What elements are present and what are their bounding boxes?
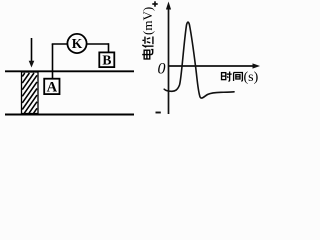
electrode box B [99, 52, 114, 67]
electrode box A [44, 79, 59, 96]
y-axis label 电位(mV), rotated [140, 7, 155, 59]
svg-text:(s): (s) [244, 70, 259, 85]
minus sign (bottom of y-axis) [156, 112, 161, 114]
svg-text:0: 0 [158, 61, 166, 78]
hatched damaged region [22, 72, 39, 114]
wire: corner down to B (vertical) [108, 43, 110, 52]
x-axis (time) [169, 63, 261, 68]
svg-text:A: A [47, 80, 58, 96]
x-axis label 时间(s) [222, 70, 259, 85]
svg-text:(mV): (mV) [140, 7, 155, 35]
glyph 电 [142, 50, 153, 59]
wire: A up to K (vertical) [52, 44, 54, 80]
glyph 时 [222, 72, 232, 82]
wire: corner to K left (horizontal) [52, 43, 68, 45]
y-axis (potential) [166, 2, 171, 115]
glyph 位 [142, 36, 153, 47]
plus sign (top of y-axis) [152, 1, 157, 6]
galvanometer K [67, 34, 86, 53]
svg-text:K: K [72, 36, 83, 51]
action potential curve [164, 22, 234, 98]
glyph 间 [234, 73, 243, 81]
stimulus arrow (pointing down) [29, 38, 35, 68]
tissue lower surface line [5, 114, 134, 116]
tissue upper surface line [5, 70, 134, 72]
svg-text:B: B [102, 52, 111, 67]
wire: K right to corner (horizontal) [86, 43, 109, 45]
